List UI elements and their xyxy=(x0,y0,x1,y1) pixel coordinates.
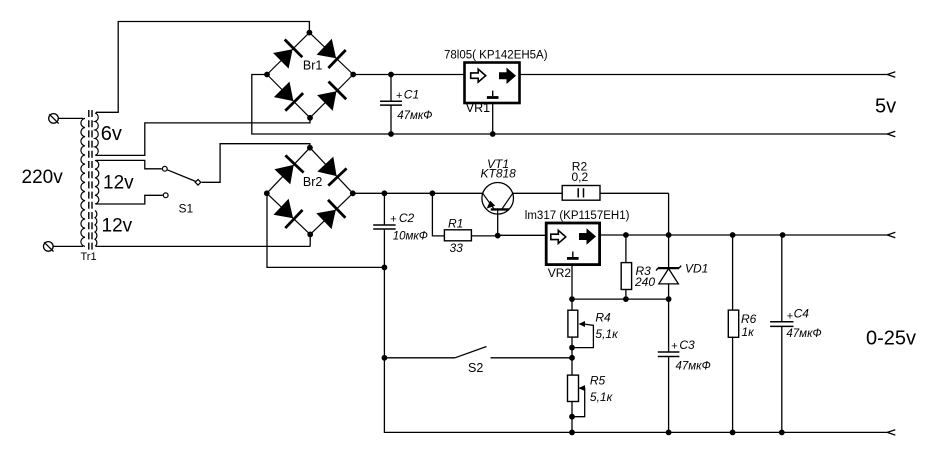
svg-text:240: 240 xyxy=(634,275,655,289)
svg-text:R5: R5 xyxy=(590,374,606,388)
svg-text:+: + xyxy=(671,341,677,353)
svg-text:6v: 6v xyxy=(101,123,122,145)
svg-text:78l05( KP142EH5A): 78l05( KP142EH5A) xyxy=(444,49,548,61)
svg-text:+: + xyxy=(390,213,396,225)
svg-text:R4: R4 xyxy=(595,311,611,325)
svg-text:5v: 5v xyxy=(875,96,896,118)
svg-text:C3: C3 xyxy=(679,338,695,352)
svg-text:VR2: VR2 xyxy=(548,266,572,280)
svg-text:33: 33 xyxy=(450,241,464,255)
svg-text:220v: 220v xyxy=(22,167,64,188)
svg-text:VD1: VD1 xyxy=(685,262,708,276)
svg-text:+: + xyxy=(396,90,402,102)
svg-text:C4: C4 xyxy=(794,306,810,320)
svg-text:1к: 1к xyxy=(742,325,756,339)
svg-text:0,2: 0,2 xyxy=(572,170,589,184)
svg-text:lm317 (KP1157EH1): lm317 (KP1157EH1) xyxy=(525,210,630,222)
svg-text:S1: S1 xyxy=(179,202,194,216)
svg-text:5,1к: 5,1к xyxy=(595,327,619,341)
svg-text:12v: 12v xyxy=(103,173,134,194)
svg-text:10мкФ: 10мкФ xyxy=(393,230,428,242)
svg-text:Tr1: Tr1 xyxy=(81,251,97,263)
svg-text:47мкФ: 47мкФ xyxy=(786,328,821,340)
svg-text:KT818: KT818 xyxy=(481,167,517,181)
svg-text:C1: C1 xyxy=(404,88,419,102)
svg-text:R1: R1 xyxy=(448,217,463,231)
svg-text:Br1: Br1 xyxy=(303,58,323,72)
svg-text:47мкФ: 47мкФ xyxy=(397,110,432,122)
svg-text:+: + xyxy=(787,310,793,322)
svg-text:C2: C2 xyxy=(399,211,415,225)
svg-text:VR1: VR1 xyxy=(466,101,490,115)
svg-text:47мкФ: 47мкФ xyxy=(676,360,711,372)
svg-text:S2: S2 xyxy=(468,361,483,375)
svg-text:5,1к: 5,1к xyxy=(590,390,614,404)
svg-text:Br2: Br2 xyxy=(303,175,323,189)
svg-text:0-25v: 0-25v xyxy=(866,328,916,350)
svg-text:12v: 12v xyxy=(102,215,133,236)
